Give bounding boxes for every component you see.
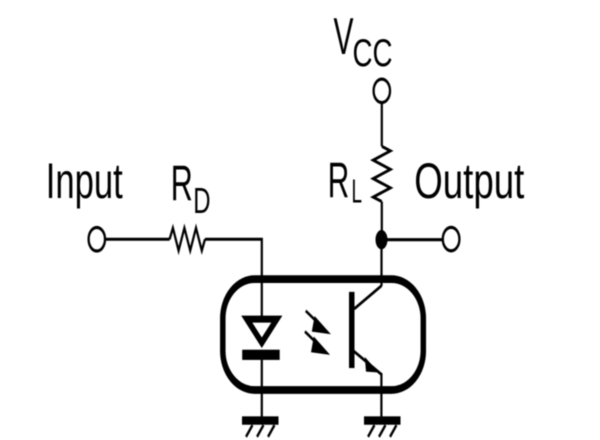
light arrow 1 head bbox=[312, 316, 331, 334]
right ground hatch 2 bbox=[379, 425, 386, 437]
optocoupler U1 body (rounded rectangle) bbox=[223, 279, 423, 390]
phototransistor emitter arrowhead bbox=[365, 357, 379, 373]
right ground bar bbox=[364, 416, 401, 424]
svg-text:L: L bbox=[352, 174, 363, 211]
left ground hatch 2 bbox=[257, 425, 264, 437]
left ground bar bbox=[242, 416, 279, 424]
phototransistor emitter line bbox=[354, 351, 382, 374]
phototransistor collector line bbox=[354, 286, 381, 309]
light arrow 2 head bbox=[311, 337, 330, 355]
svg-text:CC: CC bbox=[353, 31, 393, 75]
resistor RL zigzag bbox=[373, 146, 390, 201]
wire Vcc terminal to resistor RL bbox=[381, 103, 383, 147]
wire junction down to optocoupler body bbox=[380, 240, 382, 287]
wire resistor RD to corner node bbox=[205, 239, 262, 279]
svg-text:V: V bbox=[334, 7, 354, 66]
Vcc terminal circle bbox=[374, 79, 390, 103]
left ground hatch 1 bbox=[246, 425, 253, 437]
wire emitter to ground bbox=[380, 373, 382, 416]
svg-text:D: D bbox=[193, 181, 210, 221]
right ground hatch 1 bbox=[368, 425, 375, 437]
wire LED anode (down into body) bbox=[261, 279, 263, 319]
wire junction to output terminal bbox=[382, 239, 443, 241]
wire LED cathode to ground bbox=[261, 360, 263, 417]
svg-text:Output: Output bbox=[414, 153, 524, 209]
left ground hatch 3 bbox=[268, 425, 275, 437]
resistor RD zigzag bbox=[170, 228, 205, 251]
wire input terminal to resistor RD bbox=[105, 238, 170, 240]
wire resistor RL to junction node bbox=[381, 202, 383, 240]
LED cathode bar bbox=[242, 350, 280, 360]
output terminal circle bbox=[443, 227, 460, 251]
light arrow 1 shaft bbox=[306, 311, 317, 322]
light arrow 2 shaft bbox=[305, 332, 316, 343]
svg-text:R: R bbox=[171, 156, 193, 212]
junction node dot bbox=[376, 230, 388, 249]
svg-text:R: R bbox=[328, 153, 350, 209]
phototransistor Q1 base bar bbox=[349, 292, 355, 368]
LED D1 triangle (anode) bbox=[247, 319, 277, 343]
input terminal circle bbox=[89, 227, 105, 251]
right ground hatch 3 bbox=[390, 425, 397, 437]
svg-text:Input: Input bbox=[46, 153, 123, 209]
